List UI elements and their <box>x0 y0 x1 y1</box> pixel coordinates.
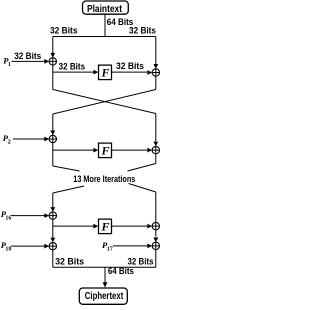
svg-text:32 Bits: 32 Bits <box>129 26 156 36</box>
svg-text:F: F <box>101 220 110 234</box>
svg-text:F: F <box>101 66 110 80</box>
svg-text:13 More Iterations: 13 More Iterations <box>73 174 135 184</box>
svg-text:16: 16 <box>5 215 11 221</box>
svg-text:1: 1 <box>8 62 11 68</box>
svg-text:F: F <box>101 144 110 158</box>
svg-text:32 Bits: 32 Bits <box>55 256 84 266</box>
svg-text:64 Bits: 64 Bits <box>108 266 134 276</box>
svg-text:18: 18 <box>5 247 11 253</box>
svg-text:2: 2 <box>8 140 11 146</box>
svg-text:32 Bits: 32 Bits <box>50 26 78 36</box>
svg-text:Plaintext: Plaintext <box>87 3 122 15</box>
svg-text:Ciphertext: Ciphertext <box>85 290 124 302</box>
svg-text:32 Bits: 32 Bits <box>59 61 86 71</box>
svg-text:32 Bits: 32 Bits <box>14 51 41 61</box>
svg-text:32 Bits: 32 Bits <box>116 61 144 71</box>
svg-text:17: 17 <box>107 247 113 253</box>
